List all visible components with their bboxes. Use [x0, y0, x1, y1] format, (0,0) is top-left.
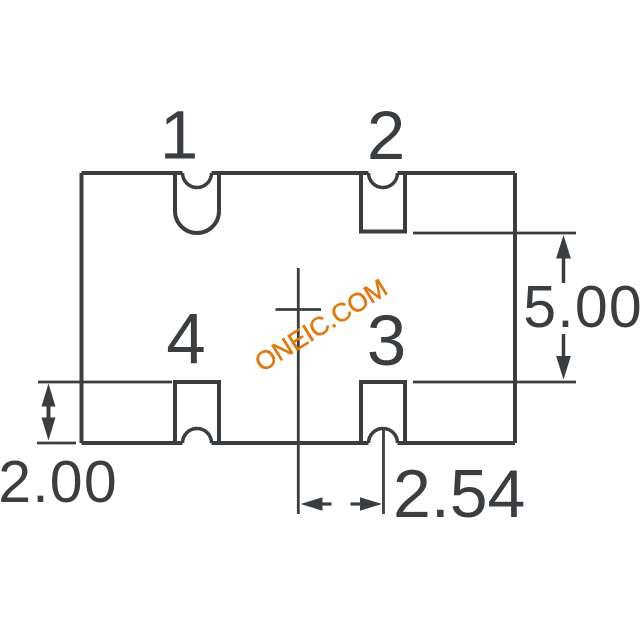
svg-text:4: 4 [166, 300, 206, 379]
pin 4 half-hole [183, 429, 212, 444]
dim 2.00 dimension line [47, 395, 51, 430]
svg-text:5.00: 5.00 [523, 274, 640, 340]
svg-text:2.54: 2.54 [393, 456, 525, 532]
dim 2.54 extension from pin 3 [382, 428, 385, 515]
package body outline [82, 173, 516, 443]
centerline horizontal tick [276, 308, 322, 311]
dim 2.00 up arrow [42, 384, 56, 407]
svg-text:1: 1 [160, 97, 198, 174]
dim 2.00 down arrow [42, 418, 56, 441]
centerline vertical [297, 268, 300, 514]
pin 2 half-hole [369, 173, 398, 188]
dim 5.00 lower arrow [556, 356, 571, 380]
dim 5.00 upper arrow [556, 235, 571, 259]
pin 4 notch [175, 382, 219, 443]
pin 1 notch [175, 173, 219, 233]
svg-text:2: 2 [367, 97, 405, 174]
pin 2 notch [361, 173, 405, 232]
svg-text:2.00: 2.00 [0, 449, 118, 515]
svg-text:3: 3 [367, 302, 407, 381]
dim 2.54 right arrow [360, 497, 382, 510]
dim 2.00 extension line bottom [37, 442, 76, 445]
pin 3 half-hole [369, 429, 398, 444]
dim 2.54 left arrow [301, 497, 323, 510]
pin 1 half-hole [183, 173, 212, 188]
pin 3 notch [361, 382, 405, 443]
dim 2.00 extension line top [38, 381, 172, 384]
dim 5.00 extension line bottom [413, 381, 576, 384]
dim 5.00 extension line top [413, 232, 576, 235]
